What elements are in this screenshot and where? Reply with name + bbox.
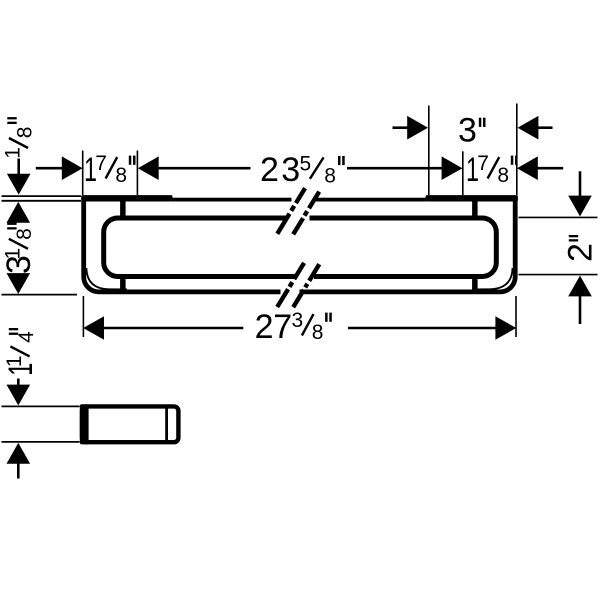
dim 23 5/8: left line — [157, 167, 251, 170]
dim 1 7/8 right: tail — [536, 167, 563, 170]
dim 3in: right arrow — [518, 116, 539, 140]
label 27 3/8 inch — [255, 308, 332, 346]
dim 2in: lower line — [579, 296, 582, 325]
extension lines 1/8 at left — [2, 195, 82, 197]
side view: extension lines — [2, 405, 80, 407]
wall plate thick right segment — [426, 195, 518, 201]
dim 2in: down arrow — [568, 196, 592, 217]
extension line 27 3/8 left — [82, 296, 84, 337]
dim 27 3/8: left arrow — [83, 316, 104, 340]
dim 3in: left tail — [393, 126, 409, 129]
svg-text:3: 3 — [458, 111, 477, 149]
side view: filled wall end — [80, 404, 89, 444]
svg-text:3: 3 — [292, 309, 304, 332]
wall plate thick left segment — [81, 195, 172, 201]
svg-text:2: 2 — [255, 308, 274, 346]
svg-text:7: 7 — [95, 152, 107, 175]
dim 1/8: down arrow — [7, 174, 31, 195]
dim 1 1/4: upper line — [17, 379, 20, 387]
inner corner highlight arc left — [86, 268, 127, 289]
dim 2in: upper line — [579, 171, 582, 197]
dim 1 7/8 left: arrow — [62, 156, 83, 180]
svg-text:4: 4 — [15, 331, 38, 343]
extension line 27 3/8 right — [515, 296, 517, 337]
label 2 inch rotated — [562, 235, 600, 262]
break gap white-outs — [292, 194, 316, 204]
extension line left 1 7/8 inner — [136, 151, 138, 196]
dim 1 1/4: up arrow — [7, 443, 31, 464]
inner corner highlight arc right — [472, 268, 513, 289]
wall plate thin connecting line — [172, 198, 426, 202]
svg-text:5: 5 — [300, 152, 312, 175]
left mounting post — [120, 198, 126, 291]
side view: inner edge line — [165, 406, 168, 444]
label 23 5/8 inch — [260, 151, 345, 189]
side view: bar profile outline — [82, 406, 178, 442]
dim 1 7/8 right: arrow — [517, 156, 538, 180]
dim 27 3/8: right arrow — [495, 316, 516, 340]
towel bar top view: outer contour — [84, 196, 516, 292]
label 1/8 inch rotated — [1, 117, 36, 159]
svg-text:1: 1 — [3, 355, 26, 367]
label 1 7/8 inch right — [466, 151, 518, 189]
dim 1 1/4: down arrow — [7, 385, 31, 406]
svg-text:8: 8 — [115, 164, 127, 187]
svg-text:8: 8 — [324, 165, 336, 188]
dim 3in: right tail — [537, 126, 553, 129]
extension lines 2in right — [519, 216, 598, 218]
label 3 inch — [458, 111, 486, 149]
svg-text:3: 3 — [281, 151, 300, 189]
dim 3 1/8: up arrow — [7, 202, 31, 223]
dim 27 3/8: right line — [348, 327, 497, 330]
svg-text:8: 8 — [13, 228, 36, 240]
dim 1 7/8 left: tail — [36, 167, 64, 170]
towel bar rail (inner rounded rectangle) — [104, 218, 497, 277]
right mounting post — [472, 198, 478, 291]
label 1 7/8 inch left — [84, 151, 136, 189]
label 1 1/4 inch rotated — [2, 328, 40, 376]
extension line right 1 7/8 inner — [462, 151, 464, 195]
extension line right outer edge above — [516, 104, 518, 196]
extension line 3in left — [428, 106, 430, 196]
dim 3in: left arrow — [407, 116, 428, 140]
extension line bottom left — [2, 294, 78, 296]
break mark slashes, bottom set — [277, 263, 319, 307]
svg-text:8: 8 — [13, 127, 36, 139]
svg-text:2: 2 — [562, 243, 600, 262]
svg-text:2: 2 — [260, 151, 279, 189]
svg-text:1: 1 — [1, 147, 24, 159]
svg-text:8: 8 — [497, 164, 509, 187]
dim 1 1/4: lower line — [17, 462, 20, 479]
break mark slashes, top set — [277, 188, 319, 234]
dim 23 5/8: right line — [347, 167, 443, 170]
svg-text:8: 8 — [312, 321, 324, 344]
label 3 1/8 inch rotated — [0, 223, 38, 274]
dim 23 5/8: right arrow — [442, 156, 463, 180]
dim 23 5/8: left arrow — [138, 156, 159, 180]
dim 3 1/8: down arrow — [7, 273, 31, 294]
svg-text:1: 1 — [1, 248, 24, 260]
extension line left outer edge above — [82, 151, 84, 196]
dim 2in: up arrow — [568, 276, 592, 297]
dim 1/8: line — [17, 159, 20, 178]
svg-text:7: 7 — [477, 152, 489, 175]
svg-text:7: 7 — [273, 308, 292, 346]
dim 27 3/8: left line — [102, 327, 243, 330]
